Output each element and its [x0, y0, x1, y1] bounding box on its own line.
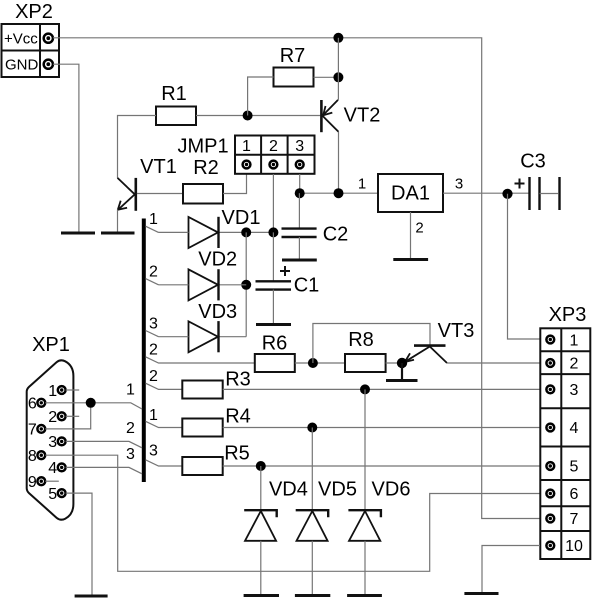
svg-text:C3: C3 [520, 151, 546, 173]
svg-text:2: 2 [48, 409, 57, 426]
wire R5 to XP3 pin5 [223, 465, 540, 467]
svg-text:R7: R7 [280, 45, 306, 67]
svg-text:10: 10 [565, 538, 583, 555]
svg-text:R5: R5 [224, 443, 250, 465]
svg-text:7: 7 [570, 511, 579, 528]
ground bar below C1 [256, 323, 291, 326]
svg-text:XP3: XP3 [549, 304, 587, 326]
node JMP1 pin3 junction [295, 188, 305, 198]
wire cathode bus vertical [245, 232, 247, 336]
pin 5 of XP3 [546, 462, 554, 470]
pin 7 of XP3 [546, 515, 554, 523]
svg-text:VT1: VT1 [140, 156, 177, 178]
resistor R1 [156, 83, 196, 125]
node VT2 collector / DA1 pin1 junction [334, 188, 344, 198]
ground bar below VD4 [244, 594, 279, 597]
wire XP1 pin4 to bar entry 3 [66, 467, 142, 473]
svg-text:9: 9 [28, 474, 37, 491]
svg-text:VT2: VT2 [344, 105, 381, 127]
wire bar exit 3 to VD3 [146, 331, 159, 337]
resistor R2 [183, 157, 223, 204]
connector XP3 [540, 304, 590, 559]
svg-text:2: 2 [415, 220, 423, 237]
svg-text:VT3: VT3 [438, 320, 475, 342]
pin 2 of XP3 [546, 359, 554, 367]
pin 3 of XP3 [546, 386, 554, 394]
resistor R7 [274, 45, 314, 87]
svg-text:2: 2 [149, 368, 158, 385]
diode VD1 [159, 207, 261, 248]
svg-text:2: 2 [149, 342, 158, 359]
wire DA1 pin1 node [300, 192, 378, 194]
svg-text:R4: R4 [225, 406, 251, 428]
wire VT2 collector down to DA1 pin1 node [338, 132, 340, 193]
svg-text:R2: R2 [193, 157, 219, 179]
svg-text:1: 1 [149, 211, 158, 228]
capacitor C3 (polarized) [515, 151, 560, 211]
svg-text:C1: C1 [294, 275, 320, 297]
svg-text:R1: R1 [161, 83, 187, 105]
node VT3 emitter junction [397, 358, 407, 368]
ground bar below C2 [282, 259, 317, 262]
svg-text:2: 2 [269, 138, 278, 155]
pin 6 of XP3 [546, 490, 554, 498]
capacitor C2 [282, 193, 349, 259]
svg-text:GND: GND [5, 57, 39, 74]
wire DA1 pin3 to C3 node [443, 192, 530, 194]
svg-text:VD2: VD2 [198, 249, 237, 271]
svg-text:3: 3 [570, 382, 579, 399]
wire XP1 pin6+7 to bar entry 1 [45, 403, 142, 409]
svg-text:DA1: DA1 [391, 183, 430, 205]
resistor R6 [255, 333, 295, 373]
wire VD cathode line to JMP1 pin2 node [219, 231, 274, 233]
resistor R5 [182, 443, 249, 476]
wire JMP1 pin3 down to DA1 pin1 node [299, 174, 301, 193]
svg-text:5: 5 [570, 459, 579, 476]
zener diode VD6 [348, 479, 410, 595]
transistor VT3 [405, 320, 475, 363]
wire R4 to XP3 pin4 [223, 427, 540, 429]
wire R1 right to base node [196, 115, 320, 117]
wire C3 node down to XP3 pin1 [508, 194, 541, 339]
svg-text:JMP1: JMP1 [177, 136, 228, 158]
wire node up and over to VT3 base [313, 324, 430, 364]
svg-text:3: 3 [295, 138, 304, 155]
node VD1 bus junction [241, 227, 251, 237]
pin 1 of XP3 [546, 336, 554, 344]
svg-text:8: 8 [28, 448, 37, 465]
svg-text:4: 4 [570, 420, 579, 437]
ground bar below VT3 emitter [386, 379, 418, 382]
pin 4 of XP3 [546, 424, 554, 432]
resistor R8 [345, 329, 386, 372]
pin 10 of XP3 [546, 542, 554, 550]
jumper header JMP1 [177, 136, 314, 174]
node R5/VD4 junction [256, 461, 266, 471]
wire R2 right up to JMP1 pin 1 [223, 174, 247, 194]
svg-text:R8: R8 [348, 329, 374, 351]
svg-text:4: 4 [48, 460, 57, 477]
ground bar below VT1 [101, 232, 135, 235]
node Vcc junction dot above VT2 [333, 33, 343, 43]
ground bar below XP2 GND [61, 232, 95, 235]
cable bundle bar [142, 219, 146, 483]
svg-text:6: 6 [28, 395, 37, 412]
node VD2 bus junction [241, 280, 251, 290]
ground bar below VD6 [347, 594, 382, 597]
svg-text:1: 1 [570, 332, 579, 349]
wire VD5 cathode up to R4 node [311, 428, 313, 511]
resistor R3 [182, 369, 250, 399]
capacitor C1 (polarized) [256, 232, 320, 323]
svg-text:2: 2 [570, 356, 579, 373]
svg-text:3: 3 [455, 176, 463, 193]
connector XP1 (DB9) [27, 334, 74, 520]
wire +Vcc rail from XP2 to right edge, down to XP3 pin 7 [53, 38, 540, 519]
svg-text:XP2: XP2 [15, 1, 53, 23]
wire XP1 pin3 to bar entry 2 [66, 441, 142, 447]
node R4/VD5 junction [307, 423, 317, 433]
node R3/VD6 junction [360, 384, 370, 394]
ground bar below DA1 pin2 [393, 258, 428, 261]
resistor R4 [182, 406, 250, 437]
node R6/R8/VT3-base junction [308, 358, 318, 368]
transistor VT1 [118, 156, 177, 211]
svg-text:1: 1 [48, 383, 57, 400]
wire XP1 pin5 to ground [66, 493, 92, 595]
wire VD4 cathode up to R5 node [260, 466, 262, 510]
wire GND from XP2 down [53, 64, 79, 232]
svg-text:3: 3 [149, 442, 158, 459]
wire VD2 line to bus [219, 284, 247, 286]
svg-text:6: 6 [570, 486, 579, 503]
svg-text:2: 2 [126, 420, 135, 437]
wire bar exit 2 to VD2 [146, 279, 159, 285]
wire R7 left down to base node [248, 77, 274, 116]
wire R3 to XP3 pin3 [223, 388, 540, 390]
wire VT3 emitter stub to ground [401, 363, 403, 380]
svg-text:VD5: VD5 [318, 479, 357, 501]
svg-text:3: 3 [48, 434, 57, 451]
ground bar below XP1 pin5 [75, 595, 108, 598]
wire bar exit 2 to R6 [146, 357, 255, 363]
svg-text:VD1: VD1 [222, 207, 261, 229]
wire DA1 pin2 stub down [410, 212, 412, 258]
svg-text:XP1: XP1 [32, 334, 70, 356]
wire JMP1 pin2 down to VD node [272, 174, 274, 232]
svg-text:3: 3 [126, 446, 135, 463]
svg-text:C2: C2 [323, 224, 349, 246]
svg-text:1: 1 [149, 407, 158, 424]
svg-text:VD4: VD4 [269, 479, 308, 501]
wire R6 right to node [295, 362, 345, 364]
svg-text:1: 1 [358, 176, 366, 193]
wire bar exit 3 to R5 [146, 460, 183, 466]
svg-text:1: 1 [126, 381, 135, 398]
node pins 6-7 junction [86, 398, 96, 408]
ground bar below VD5 [295, 594, 330, 597]
diode VD3 [159, 301, 238, 352]
wire XP3 pin10 to ground [482, 546, 540, 593]
wire R1 left to VT1 collector [118, 116, 157, 179]
voltage regulator DA1 [378, 174, 443, 212]
svg-text:1: 1 [242, 138, 251, 155]
node C3 / XP3 pin1 junction [502, 189, 512, 199]
wire R7 right to VT2 emitter node [314, 76, 339, 78]
wire VT1 base to R2 [137, 193, 183, 195]
wire bar exit 1 to R4 [146, 421, 183, 427]
wire R8 right to VT3 emitter node [386, 362, 402, 364]
svg-text:5: 5 [48, 486, 57, 503]
svg-text:R6: R6 [262, 333, 288, 355]
ground bar below XP3 pin10 [464, 592, 498, 595]
diode VD2 [159, 249, 238, 301]
zener diode VD4 [244, 479, 308, 595]
svg-text:2: 2 [149, 263, 158, 280]
zener diode VD5 [296, 479, 357, 595]
svg-text:+Vcc: +Vcc [4, 31, 38, 48]
connector XP2 [2, 1, 60, 77]
wire VT3 collector to XP3 pin2 [447, 362, 540, 364]
wire VD6 cathode up to R3 node [364, 389, 366, 510]
svg-text:3: 3 [149, 315, 158, 332]
svg-text:VD6: VD6 [372, 479, 411, 501]
svg-text:VD3: VD3 [198, 301, 237, 323]
wire XP1 pin8 route to XP3 pin6 [45, 455, 540, 571]
wire bar exit 2 to R3 [146, 383, 183, 389]
svg-text:7: 7 [28, 422, 37, 439]
node R1/R7/VT2-base junction [243, 111, 253, 121]
node JMP1 pin2 / C1 junction [268, 227, 278, 237]
svg-text:R3: R3 [225, 369, 251, 391]
wire Vcc dot down to VT2 [337, 38, 339, 100]
wire VT1 emitter to ground [117, 210, 119, 232]
node R7/VT2/Vcc junction [333, 72, 343, 82]
wire VD3 line to bus [219, 336, 247, 338]
wire bar exit 1 to VD1 [146, 226, 159, 232]
transistor VT2 [321, 100, 380, 132]
